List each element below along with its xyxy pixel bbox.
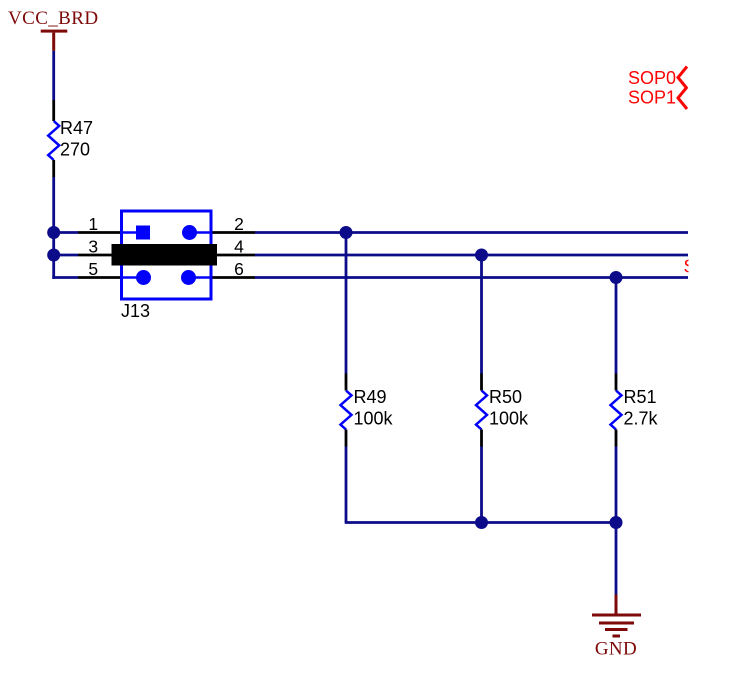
pin 4 lead — [217, 254, 255, 257]
node junction bus R51 — [610, 516, 623, 529]
pin 6 round pad — [181, 270, 196, 285]
svg-text:R47: R47 — [60, 118, 93, 138]
wire R50 to bus — [480, 447, 483, 523]
pin number 6 — [234, 259, 244, 279]
ground bus wire — [345, 521, 616, 524]
pin 1 square pad — [136, 226, 150, 240]
jumper shunt across pins 3-4 — [112, 244, 218, 266]
node junction row3 left — [47, 249, 60, 262]
wire from R47 down left rail — [52, 177, 55, 279]
svg-text:100k: 100k — [489, 409, 529, 429]
wire down to R50 — [480, 255, 483, 374]
svg-text:270: 270 — [60, 140, 90, 160]
svg-text:4: 4 — [234, 237, 244, 257]
wire row5 right — [255, 276, 688, 279]
resistor R49 — [341, 374, 394, 447]
pin 1 lead — [78, 231, 120, 234]
svg-text:SOP0: SOP0 — [628, 68, 676, 88]
pin 5 lead — [78, 276, 120, 279]
svg-text:SOP1: SOP1 — [628, 88, 676, 108]
svg-text:VCC_BRD: VCC_BRD — [8, 8, 98, 29]
pin number 3 — [88, 237, 98, 257]
node junction row5 at R51 — [610, 271, 623, 284]
svg-text:J13: J13 — [121, 301, 150, 321]
svg-text:1: 1 — [88, 214, 98, 234]
net label SOP2 clipped — [684, 257, 731, 277]
net label SOP0 — [628, 68, 676, 88]
node junction row1 left — [47, 226, 60, 239]
pin 6 lead — [213, 276, 256, 279]
wire bus to ground — [615, 523, 618, 595]
pin 3 lead — [78, 254, 112, 257]
net label SOP1 — [628, 88, 676, 108]
wire row1 right — [255, 231, 688, 234]
svg-text:GND: GND — [595, 639, 637, 660]
resistor R51 — [611, 374, 659, 447]
wire R49 to bus — [345, 447, 348, 523]
pin number 2 — [234, 214, 244, 234]
svg-text:R50: R50 — [489, 387, 522, 407]
wire row3 left — [54, 254, 78, 257]
pin 5 round pad — [136, 270, 151, 285]
pin 2 lead — [213, 231, 256, 234]
wire R51 to bus — [615, 447, 618, 523]
svg-text:5: 5 — [88, 259, 98, 279]
pin number 1 — [88, 214, 98, 234]
resistor R47 — [48, 100, 93, 177]
pin 2 round pad — [182, 225, 197, 240]
off-page connector SOP1 — [678, 87, 687, 109]
svg-text:2: 2 — [234, 214, 244, 234]
pin number 5 — [88, 259, 98, 279]
wire row1 left — [54, 231, 78, 234]
svg-text:2.7k: 2.7k — [624, 409, 659, 429]
svg-text:6: 6 — [234, 259, 244, 279]
node junction bus R50 — [475, 516, 488, 529]
node junction row3 at R50 — [475, 249, 488, 262]
pin number 4 — [234, 237, 244, 257]
wire row5 left — [52, 276, 78, 279]
ground GND — [592, 595, 641, 660]
wire row3 right — [255, 254, 688, 257]
power symbol VCC_BRD — [8, 8, 98, 51]
node junction row1 at R49 — [340, 226, 353, 239]
off-page connector SOP0 — [678, 67, 687, 89]
svg-text:R49: R49 — [354, 387, 387, 407]
wire from VCC_BRD to R47 — [52, 51, 55, 100]
resistor R50 — [476, 374, 529, 447]
svg-text:3: 3 — [88, 237, 98, 257]
svg-text:R51: R51 — [624, 387, 657, 407]
wire down to R51 — [615, 278, 618, 374]
wire down to R49 — [345, 233, 348, 374]
svg-text:100k: 100k — [354, 409, 394, 429]
connector J13 body — [120, 211, 213, 321]
